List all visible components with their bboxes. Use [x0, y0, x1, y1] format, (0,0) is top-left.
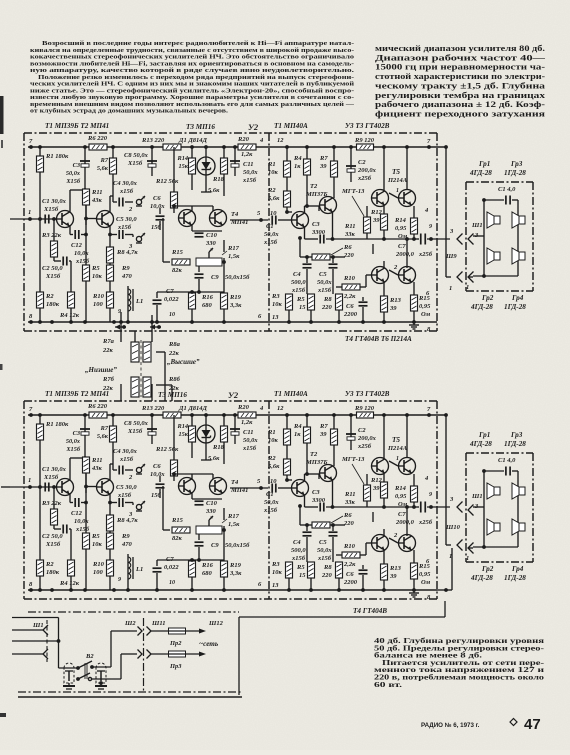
svg-text:R7: R7	[319, 155, 328, 162]
connector chevron 3 (Гр1)	[468, 503, 479, 516]
wire T2 collector (ch1)	[110, 196, 113, 212]
svg-text:С10: С10	[206, 232, 218, 239]
wire switch to Sh2 row1	[92, 631, 137, 667]
resistor R7 5.6k (ch1)	[97, 157, 117, 174]
svg-text:С1 4,0: С1 4,0	[498, 457, 516, 464]
output node wire (ch1)	[367, 237, 419, 241]
svg-text:С6: С6	[346, 571, 354, 578]
svg-text:Положение резко изменилось с п: Положение резко изменилось с переходом р…	[38, 74, 354, 81]
top supply rail +7 (ch2)	[28, 413, 446, 417]
transistor T2 MP37B amp (ch2)	[305, 451, 337, 482]
svg-text:С5 30,0: С5 30,0	[116, 484, 137, 491]
svg-text:Т1 МП39Б Т2 МП41: Т1 МП39Б Т2 МП41	[45, 390, 109, 398]
wire switch to Sh2 row2	[92, 654, 137, 679]
capacitor C1 4.0 crossover (Гр1)	[498, 457, 516, 476]
ground lamp 2	[95, 681, 107, 689]
svg-text:5,6к: 5,6к	[208, 187, 220, 194]
svg-text:39: 39	[372, 485, 380, 492]
svg-text:С7: С7	[398, 511, 406, 518]
transistor T2 MP41 (ch1)	[97, 211, 114, 228]
resistor R4 1k amp (ch1)	[293, 147, 311, 208]
svg-text:50,0х: 50,0х	[66, 170, 80, 177]
transistor T1 MP39B (ch1)	[57, 211, 74, 228]
channel 2 input wire from page edge	[1, 486, 10, 488]
svg-text:Ш9: Ш9	[445, 253, 457, 260]
svg-text:С6: С6	[153, 463, 161, 470]
svg-text:50,0х15б: 50,0х15б	[225, 274, 250, 281]
bottom rail (ch1)	[28, 320, 437, 324]
svg-text:С8 50,0х: С8 50,0х	[124, 420, 149, 427]
svg-text:кокачественных стереофоническ: кокачественных стереофонических усилител…	[30, 54, 354, 61]
svg-text:9: 9	[429, 224, 432, 230]
resistor R20 1.2k (ch1)	[237, 136, 256, 158]
svg-text:180к: 180к	[46, 569, 60, 576]
svg-text:х15б: х15б	[317, 287, 332, 294]
svg-text:С1 4,0: С1 4,0	[498, 186, 516, 193]
svg-text:10,0х: 10,0х	[74, 518, 89, 525]
bottom rail (ch2)	[28, 588, 437, 592]
pin 6 (ch1)	[258, 313, 262, 320]
wire driver to output pair (ch1)	[373, 237, 409, 268]
svg-text:1,5к: 1,5к	[228, 253, 240, 260]
label Vysshie (treble)	[167, 358, 200, 366]
label T1 MP39B T2 MP41 (ch2)	[45, 390, 109, 398]
wire T2 collector (ch2)	[110, 464, 113, 480]
svg-text:С11: С11	[243, 161, 253, 168]
svg-text:С11: С11	[243, 429, 253, 436]
svg-text:С2: С2	[358, 427, 366, 434]
pin 4 (ch2)	[259, 405, 264, 412]
wire T5 collector rail (ch2)	[384, 415, 407, 459]
svg-text:2200: 2200	[343, 579, 358, 586]
connector divider dash-dot	[143, 618, 145, 692]
svg-text:R12: R12	[370, 209, 383, 216]
svg-text:Ом: Ом	[421, 311, 431, 318]
wire T1 collector (ch2)	[70, 456, 87, 480]
connector Sh1 divider dash-dot	[46, 620, 48, 662]
svg-text:0,022: 0,022	[164, 564, 179, 571]
connector Sh1 input label	[32, 622, 44, 629]
resistor R12 39 amp (ch2)	[370, 474, 388, 507]
capacitor C2 50.0x15v (ch2)	[42, 525, 71, 561]
svg-text:L1: L1	[135, 298, 143, 305]
svg-text:39: 39	[389, 573, 397, 580]
svg-text:С1 30,0х: С1 30,0х	[42, 466, 67, 473]
resistor R15 0.95 amp (ch2)	[411, 550, 432, 590]
transistor T4 MP41 (ch1)	[210, 210, 249, 227]
svg-text:Х15б: Х15б	[127, 428, 143, 435]
svg-text:извести любую звуковую програм: извести любую звуковую программу. Хороши…	[30, 94, 354, 101]
svg-text:МГТ-13: МГТ-13	[341, 188, 365, 195]
jack socket 2 (ch2)	[128, 464, 145, 481]
svg-text:R8: R8	[323, 564, 332, 571]
svg-text:РАДИО № 6, 1973 г.: РАДИО № 6, 1973 г.	[421, 722, 480, 729]
channel 1 unit U2 border (dash-dot)	[268, 133, 270, 331]
power section bottom dashdot	[18, 691, 242, 693]
svg-text:С6: С6	[346, 303, 354, 310]
resistor R12 56k (ch1)	[155, 147, 179, 213]
svg-text:10к: 10к	[272, 301, 283, 308]
resistor R19 3.3k (ch1)	[221, 292, 243, 322]
svg-text:Гр4: Гр4	[511, 294, 524, 302]
svg-text:х15б: х15б	[75, 526, 90, 533]
svg-text:1ГД-28: 1ГД-28	[504, 169, 526, 177]
svg-text:R10: R10	[343, 275, 356, 282]
svg-text:10к: 10к	[268, 169, 279, 176]
capacitor C6 2200 (ch1)	[343, 297, 368, 322]
svg-text:R14: R14	[394, 485, 407, 492]
svg-text:от клубных эстрад до домашних: от клубных эстрад до домашних музыкальны…	[30, 108, 229, 115]
svg-text:R3 22к: R3 22к	[41, 500, 62, 507]
svg-text:220: 220	[343, 520, 355, 527]
svg-text:5,6к: 5,6к	[208, 455, 220, 462]
svg-text:временным внешним видом позвол: временным внешним видом позволяют исполь…	[30, 101, 355, 108]
pin 4 amp (ch2)	[424, 475, 429, 482]
resistor R1 10k amp (ch2)	[267, 415, 291, 459]
svg-text:Т1 МП39Б Т2 МП41: Т1 МП39Б Т2 МП41	[45, 122, 109, 130]
wire R18 column (ch1)	[223, 147, 225, 196]
transistor T4 GT404 amp (ch2)	[372, 532, 399, 552]
svg-text:R7а: R7а	[102, 338, 115, 345]
svg-text:0,022: 0,022	[164, 296, 179, 303]
svg-text:ческому тракту ±1,5 дб. Гл: ческому тракту ±1,5 дб. Глубина	[375, 81, 545, 90]
svg-text:R13: R13	[389, 565, 402, 572]
svg-text:возможности любителей Hi—Fi, з: возможности любителей Hi—Fi, заставляя и…	[30, 60, 354, 67]
pin 10 (ch1)	[169, 312, 175, 318]
pin 12 (ch2)	[277, 405, 284, 412]
wire U2 mid row (ch2)	[157, 508, 226, 562]
power section bottom border	[18, 696, 242, 698]
tone control wires vertical	[119, 312, 172, 401]
svg-text:R13: R13	[389, 297, 402, 304]
svg-text:С3: С3	[73, 162, 80, 169]
capacitor C5 30.0x15v out3 (ch2)	[110, 484, 137, 507]
svg-text:R20: R20	[237, 136, 250, 143]
capacitor C1 50.0x15v amp coupling (ch2)	[263, 484, 291, 515]
label U3 T3 GT402V (ch2)	[345, 390, 390, 398]
svg-text:R4 12к: R4 12к	[59, 580, 80, 587]
wire feedback row (ch1)	[298, 236, 345, 257]
transistor T3 GT402 amp (ch2)	[372, 458, 399, 475]
resistor R8 4.7k (ch2)	[107, 503, 139, 532]
ground amp output (ch2)	[409, 590, 419, 597]
svg-text:22к: 22к	[102, 347, 114, 354]
loudspeaker Gr2 (Гр2)	[487, 519, 500, 535]
svg-text:регулировки тембра на грани: регулировки тембра на границах	[375, 91, 545, 100]
svg-text:R3 22к: R3 22к	[41, 232, 62, 239]
wire U2 output to amp (ch1)	[230, 218, 268, 222]
svg-text:1,2к: 1,2к	[241, 419, 253, 426]
svg-text:Гр3: Гр3	[510, 160, 523, 168]
label MGT-13 (ch1)	[341, 188, 365, 216]
transistor T1 MP40A amp (ch2)	[292, 474, 320, 497]
svg-text:R12 56к: R12 56к	[155, 178, 179, 185]
svg-text:47: 47	[524, 716, 541, 733]
speaker box border (Гр1)	[466, 453, 533, 562]
resistor R5 15 amp (ch2)	[296, 562, 315, 590]
right column paragraph	[375, 44, 547, 118]
connector Sh2 label	[124, 620, 136, 627]
resistor R7 39 amp (ch2)	[319, 415, 338, 466]
jack socket 3 (ch1)	[128, 233, 145, 250]
svg-text:Т2: Т2	[310, 183, 318, 190]
label T3 MP16 (ch1)	[186, 123, 215, 131]
svg-text:~сеть: ~сеть	[199, 640, 219, 648]
resistor R7 39 amp (ch1)	[319, 147, 338, 198]
svg-text:10,0х: 10,0х	[74, 250, 89, 257]
svg-text:39: 39	[372, 217, 380, 224]
svg-text:4ГД-28: 4ГД-28	[469, 169, 492, 177]
svg-text:3300: 3300	[311, 497, 326, 504]
svg-text:5,6к: 5,6к	[97, 433, 109, 440]
svg-text:Т1 МП40А: Т1 МП40А	[274, 122, 308, 130]
label Nizshie (bass)	[85, 366, 117, 374]
svg-text:22к: 22к	[168, 385, 180, 392]
svg-text:Х15б: Х15б	[127, 160, 143, 167]
svg-text:0,95: 0,95	[395, 225, 407, 232]
svg-text:С2 50,0: С2 50,0	[42, 265, 63, 272]
resistor R9 120 amp (ch1)	[354, 137, 375, 150]
svg-text:3,3к: 3,3к	[229, 302, 242, 309]
pin 7 right (ch1)	[427, 138, 431, 145]
resistor R16 680 (ch1)	[189, 292, 214, 322]
svg-text:х15б: х15б	[317, 555, 332, 562]
resistor R6 220 amp feedback (ch2)	[300, 506, 355, 528]
svg-text:П214А: П214А	[387, 445, 408, 452]
svg-text:4ГД-28: 4ГД-28	[469, 440, 492, 448]
wire R11 bottom link (ch2)	[84, 473, 88, 488]
svg-text:R9: R9	[121, 265, 130, 272]
svg-text:50,0х: 50,0х	[317, 279, 332, 286]
resistor R6 220 amp feedback (ch1)	[300, 238, 355, 260]
svg-text:220: 220	[343, 252, 355, 259]
capacitor C11 50.0x15v (ch1)	[230, 147, 258, 184]
svg-text:1ГД-28: 1ГД-28	[504, 303, 526, 311]
resistor R15 82k (ch2)	[163, 486, 190, 542]
svg-text:200,0х: 200,0х	[357, 167, 377, 174]
potentiometer R17 1.5k (ch1)	[196, 245, 240, 266]
svg-text:С12: С12	[71, 510, 83, 517]
svg-text:Гр1: Гр1	[478, 431, 490, 439]
pin 13 (ch2)	[272, 582, 279, 589]
svg-text:R16: R16	[201, 562, 214, 569]
wire R3 bottom (ch2)	[53, 525, 55, 529]
footer diamond	[510, 719, 517, 726]
inductor L1 (ch1)	[128, 286, 143, 322]
svg-text:МГТ-13: МГТ-13	[341, 456, 365, 463]
svg-text:Т1 МП40А: Т1 МП40А	[274, 390, 308, 398]
resistor R12 56k (ch2)	[155, 415, 179, 481]
svg-text:50,0х: 50,0х	[243, 169, 258, 176]
svg-text:1: 1	[28, 209, 31, 216]
pin 8 amp (ch2)	[427, 594, 431, 601]
resistor R19 3.3k (ch2)	[221, 560, 243, 590]
svg-text:220: 220	[321, 304, 333, 311]
resistor R9 120 amp (ch2)	[354, 405, 375, 418]
supply return wire (ch2)	[444, 413, 462, 560]
svg-text:10: 10	[169, 580, 175, 586]
connector Sh1 label (Гр1)	[471, 222, 483, 229]
resistor R10 100 (ch2)	[92, 560, 114, 590]
wire R7 column (ch2)	[112, 415, 114, 464]
capacitor C3 3300 (ch2)	[305, 480, 368, 512]
connector label Ш10	[445, 524, 461, 531]
svg-text:1: 1	[449, 285, 452, 292]
resistor R18 5.6k (ch1)	[208, 158, 228, 194]
svg-text:Гр4: Гр4	[511, 565, 524, 573]
svg-text:680: 680	[202, 302, 213, 309]
potentiometer R17 1.5k (ch2)	[196, 513, 240, 534]
jack socket 2 (ch1)	[128, 196, 145, 213]
resistor R11 33k amp (ch1)	[344, 206, 371, 239]
svg-text:3300: 3300	[311, 229, 326, 236]
svg-text:R5: R5	[296, 564, 305, 571]
svg-text:Х15б: Х15б	[45, 273, 61, 280]
svg-text:R17: R17	[227, 513, 240, 520]
potentiometer R8a 22k treble	[143, 341, 181, 362]
svg-text:1ГД-28: 1ГД-28	[504, 440, 526, 448]
svg-text:R11: R11	[91, 189, 102, 196]
svg-text:15б: 15б	[151, 224, 162, 231]
svg-text:R13 220: R13 220	[141, 405, 165, 412]
svg-text:43к: 43к	[91, 465, 103, 472]
pin 9 amp (ch2)	[429, 492, 432, 498]
wire T1 base bias node (ch1)	[52, 217, 56, 241]
loudspeaker Gr2 (Гр2)	[487, 248, 500, 264]
capacitor C4 500.0x15v (ch2)	[291, 523, 312, 562]
wire R14 column (ch2)	[191, 415, 193, 458]
svg-text:22к: 22к	[102, 385, 114, 392]
svg-text:У2: У2	[248, 122, 259, 132]
svg-text:2000,0: 2000,0	[395, 251, 415, 258]
intro paragraph (left column)	[30, 40, 355, 115]
resistor R20 1.2k (ch2)	[237, 404, 256, 426]
potentiometer R7b 22k bass	[102, 376, 139, 397]
svg-text:Т5: Т5	[392, 168, 400, 176]
pin 7 left (ch2)	[29, 406, 33, 413]
svg-text:1,5к: 1,5к	[228, 521, 240, 528]
speaker group labels bottom (Гр2 Гр4)	[470, 294, 526, 311]
wire U2 output to amp (ch2)	[230, 486, 268, 490]
loudspeaker Gr4 (Гр4)	[512, 519, 525, 535]
svg-text:500,0: 500,0	[291, 547, 306, 554]
svg-text:С2 50,0: С2 50,0	[42, 533, 63, 540]
svg-text:470: 470	[121, 541, 133, 548]
pin 5 (ch2)	[257, 478, 261, 485]
wire T5 collector rail (ch1)	[384, 147, 407, 191]
capacitor C7 0.022 (ch1)	[153, 288, 180, 322]
voltage selector lamp 1	[64, 663, 74, 683]
svg-text:х15б: х15б	[291, 555, 306, 562]
svg-text:10: 10	[169, 312, 175, 318]
svg-text:15к: 15к	[179, 431, 189, 438]
svg-text:680: 680	[202, 570, 213, 577]
svg-text:С4: С4	[293, 271, 301, 278]
resistor R14 0.95 (ch2)	[394, 474, 418, 508]
connector Sh11 label	[151, 620, 165, 627]
svg-text:0,95: 0,95	[419, 303, 431, 310]
resistor R13 39 amp (ch1)	[381, 282, 402, 322]
capacitor C4 30.0x15v out2 (ch1)	[113, 180, 138, 207]
wire R11 bottom link (ch1)	[84, 205, 88, 220]
svg-text:5,6к: 5,6к	[268, 463, 280, 470]
svg-text:R5: R5	[91, 265, 100, 272]
svg-text:R14: R14	[177, 423, 189, 430]
svg-text:МП37Б: МП37Б	[305, 191, 327, 198]
label U3 T3 GT402V (ch1)	[345, 122, 390, 130]
resistor R13 220 (ch1)	[141, 137, 181, 150]
svg-text:С3: С3	[312, 489, 320, 496]
svg-text:15б: 15б	[151, 492, 162, 499]
svg-text:R8: R8	[323, 296, 332, 303]
svg-text:330: 330	[205, 240, 217, 247]
connector chevron 1 (Гр1)	[466, 272, 474, 292]
svg-text:R7: R7	[100, 425, 109, 432]
svg-text:Диапазон рабочих частот: Диапазон рабочих частот 40—	[375, 53, 547, 62]
svg-text:4ГД-28: 4ГД-28	[470, 303, 493, 311]
loudspeaker Gr3 (Гр3)	[512, 483, 525, 499]
resistor R5 10k (ch1)	[83, 235, 103, 323]
svg-text:12: 12	[277, 137, 284, 144]
svg-text:13: 13	[272, 314, 279, 321]
loudspeaker Gr1 (Гр1)	[487, 212, 500, 228]
svg-text:R3: R3	[271, 561, 280, 568]
resistor R6 220 (ch2)	[87, 403, 108, 418]
chevrons Sh2/Sh11 row2	[138, 650, 152, 659]
pin 4 (ch1)	[259, 137, 264, 144]
resistor R13 220 (ch2)	[141, 405, 181, 418]
svg-text:R6: R6	[343, 244, 352, 251]
scan artifact left mid	[0, 364, 3, 370]
svg-text:С5 30,0: С5 30,0	[116, 216, 137, 223]
capacitor C12 10.0x15v (ch2)	[70, 487, 97, 534]
svg-text:Х15б: Х15б	[65, 178, 80, 185]
svg-text:39: 39	[389, 305, 397, 312]
svg-text:С5: С5	[319, 271, 327, 278]
svg-text:Х15б: Х15б	[43, 474, 59, 481]
svg-text:х15б: х15б	[117, 492, 132, 499]
pin 13 (ch1)	[272, 314, 279, 321]
input chevrons Sh1	[43, 625, 48, 659]
resistor R15 82k (ch1)	[163, 218, 190, 274]
wire R7 column (ch1)	[112, 147, 114, 196]
svg-text:кивался на определенные трудно: кивался на определенные трудности, связа…	[30, 47, 354, 54]
svg-text:рабочего диапазона ± 12 дб. Ко: рабочего диапазона ± 12 дб. Коэф-	[375, 100, 545, 109]
svg-text:R6: R6	[343, 512, 352, 519]
ground lamp 1	[63, 683, 75, 689]
resistor R2 180k (ch1)	[37, 292, 60, 322]
svg-text:х25б: х25б	[357, 175, 372, 182]
pin 6 (ch2)	[258, 581, 262, 588]
svg-text:1: 1	[396, 456, 399, 462]
speaker wiring (Гр1)	[473, 469, 518, 549]
resistor R8 220 amp (ch2)	[321, 562, 343, 590]
resistor R1 10k amp (ch1)	[267, 147, 291, 191]
wire R1 column (ch2)	[39, 415, 41, 487]
channel 2 outer box	[239, 601, 445, 695]
resistor R14 15k (ch2)	[177, 423, 196, 442]
svg-text:ную аппаратуру, качество котор: ную аппаратуру, качество которой в ряде …	[30, 67, 355, 74]
svg-text:50,0х: 50,0х	[264, 499, 279, 506]
svg-text:2,2к: 2,2к	[343, 561, 356, 568]
channel 2 unit U2 border (dash-dot)	[268, 401, 270, 599]
svg-text:Ш11: Ш11	[151, 620, 165, 627]
transistor T6 P214A (ch2)	[399, 535, 416, 552]
svg-text:Ш1: Ш1	[471, 493, 483, 500]
wire R1 column (ch1)	[39, 147, 41, 219]
capacitor C3 50.0x15v (ch1)	[65, 147, 90, 190]
label D1 D814D (ch2)	[178, 405, 208, 412]
